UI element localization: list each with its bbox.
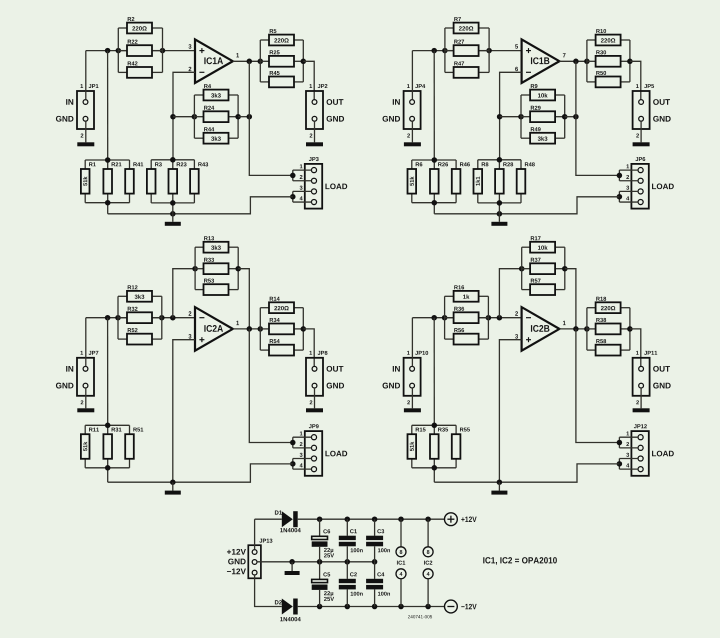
capacitor C1 100n: [339, 519, 363, 562]
junction input/divider: [105, 315, 111, 321]
resistor R42: [127, 61, 152, 77]
resistor R9 value 10k: [530, 84, 555, 100]
resistor R55: [452, 428, 470, 459]
wire JP1 pin1 to input net: [85, 51, 87, 100]
connector JP7 (IN/GND): [56, 351, 98, 404]
ground: [165, 222, 181, 226]
resistor R14 value 220Ω: [269, 297, 294, 313]
wire ground stub: [498, 214, 500, 222]
resistor R5 value 220Ω: [269, 29, 294, 45]
junction output node: [573, 326, 579, 332]
connector JP11 (OUT/GND): [633, 351, 671, 404]
junction +12V rail: [425, 516, 431, 522]
junction feedback bracket right: [562, 114, 568, 120]
wire feedback group left link: [500, 116, 521, 118]
junction input bracket: [442, 315, 448, 321]
wire JP7 pin1 to input net: [85, 318, 87, 367]
junction divider top: [432, 423, 438, 429]
junction JP6 pins 1-2: [617, 173, 623, 179]
power terminal -12V: [445, 600, 477, 613]
resistor R11 value 51k: [81, 428, 99, 459]
wire feedback to output: [238, 116, 249, 118]
wire output vertical to LOAD: [576, 329, 620, 443]
wire input to load-divider group: [433, 51, 435, 160]
connector JP13 (+12V/GND/-12V): [227, 539, 272, 579]
junction feedback bracket left: [192, 114, 198, 120]
junction ground net: [170, 479, 176, 485]
resistor R18 value 220Ω: [596, 297, 621, 313]
junction JP3 pins 1-2: [290, 173, 296, 179]
resistor R44 value 3k3: [204, 127, 229, 143]
wire input net IC1A: [86, 50, 195, 52]
wire input to load-divider group: [107, 51, 109, 160]
junction +12V rail: [317, 516, 323, 522]
wire output vertical to LOAD: [249, 61, 292, 175]
wire parallel-group bracket for R2/R22/R42: [118, 28, 162, 72]
wire JP10 pin2 to ground: [411, 388, 413, 408]
junction divider B top: [170, 157, 176, 163]
wire feedback to output vertical: [565, 269, 576, 329]
wire -12V rail: [298, 606, 445, 608]
junction -12V rail: [345, 604, 351, 610]
capacitor C5 electrolytic 22µ/25V: [312, 562, 334, 607]
wire JP4 pin2 to ground: [411, 121, 413, 142]
resistor R10 value 220Ω: [596, 29, 621, 45]
resistor R46: [452, 162, 470, 193]
wire JP10 pin1 to input net: [411, 318, 413, 367]
junction feedback tap: [170, 315, 176, 321]
capacitor C4 100n: [366, 562, 390, 607]
junction output bracket right: [301, 326, 307, 332]
wire ground stub: [172, 482, 174, 490]
op-amp IC2A: [189, 307, 240, 351]
resistor R27: [454, 40, 479, 56]
connector JP1 (IN/GND): [56, 84, 99, 137]
ground: [404, 408, 421, 412]
junction output node: [573, 59, 579, 65]
wire output vertical to LOAD: [576, 61, 620, 175]
wire output net IC1A: [233, 60, 260, 62]
IC power pins IC2 (8/4): [423, 519, 433, 606]
junction divider bottom: [105, 465, 111, 471]
connector JP2 (OUT/GND): [306, 84, 344, 137]
junction output node: [247, 59, 253, 65]
junction input/divider: [431, 48, 437, 54]
junction feedback tap: [170, 114, 176, 120]
junction ground rail / ground symbol: [289, 559, 295, 565]
wire parallel-group bracket for R12/R32/R52: [118, 296, 162, 339]
wire parallel-group bracket for R6/R26/R46: [412, 160, 456, 203]
wire input net IC2B: [412, 317, 521, 319]
resistor R53: [204, 279, 229, 295]
wire IC2B non-inverting input to ground: [499, 340, 521, 483]
power terminal +12V: [445, 513, 477, 526]
wire parallel-group bracket for R17/R37/R57: [522, 247, 565, 289]
junction +12V rail: [398, 516, 404, 522]
wire JP11 pin2 to ground: [640, 388, 642, 408]
resistor R35: [430, 428, 448, 459]
resistor R22: [127, 40, 152, 56]
wire JP1 pin2 to ground: [85, 121, 87, 142]
wire output net IC1B: [559, 60, 587, 62]
wire divider B to ground wire: [498, 203, 500, 214]
wire feedback vertical: [173, 269, 195, 318]
ground: [491, 491, 507, 495]
junction -12V rail: [398, 604, 404, 610]
capacitor C6 electrolytic 22µ/25V: [312, 519, 334, 562]
wire IC1B inverting input net: [500, 72, 522, 160]
wire divider B to ground wire: [172, 203, 174, 214]
junction feedback bracket right: [235, 114, 241, 120]
wire parallel-group bracket for R18/R38/R58: [587, 308, 630, 350]
junction JP3 pins 3-4: [290, 194, 296, 200]
ground: [633, 408, 650, 412]
ground: [306, 408, 323, 412]
resistor R49 value 3k3: [530, 127, 555, 143]
wire JP3 pin1-2 bracket: [293, 170, 312, 181]
wire parallel-group bracket for R10/R30/R50: [587, 40, 630, 82]
wire ground stub: [291, 562, 293, 571]
junction feedback bracket right: [562, 266, 568, 272]
wire JP6 pin3-4 bracket: [619, 191, 638, 202]
junction bracket right: [159, 315, 165, 321]
resistor R31: [103, 428, 121, 459]
connector JP5 (OUT/GND): [633, 84, 671, 137]
resistor R32: [127, 307, 152, 323]
wire parallel-group bracket for R15/R35/R55: [412, 425, 456, 468]
wire JP8 pin2 to ground: [314, 388, 316, 408]
connector JP8 (OUT/GND): [306, 351, 344, 404]
wire LOAD return to ground: [434, 197, 619, 214]
junction feedback/output vertical: [247, 114, 253, 120]
wire divider A to ground wire: [433, 203, 435, 214]
connector JP6 (LOAD): [626, 157, 674, 209]
junction divider A top: [432, 157, 438, 163]
wire feedback vertical: [499, 269, 521, 318]
wire parallel-group bracket for R5/R25/R45: [260, 40, 303, 82]
junction bracket right: [486, 315, 492, 321]
resistor R17 value 10k: [530, 236, 555, 252]
junction divider A bottom: [432, 200, 438, 206]
resistor R41: [125, 162, 143, 193]
junction JP12 pins 3-4: [617, 461, 623, 467]
wire JP13 pin1 to +12V rail: [254, 519, 256, 549]
resistor R52: [127, 328, 152, 344]
wire JP12 pin1-2 bracket: [619, 437, 638, 448]
resistor R50: [596, 71, 621, 87]
op-amp IC2B: [515, 307, 566, 351]
wire ground stub: [498, 482, 500, 490]
junction ground net: [170, 211, 176, 217]
junction input/divider: [105, 48, 111, 54]
junction input/divider: [431, 315, 437, 321]
wire JP4 pin1 to input net: [411, 51, 413, 100]
capacitor C2 100n: [339, 562, 363, 607]
resistor R23: [169, 162, 187, 193]
junction ground net: [497, 211, 503, 217]
wire parallel-group bracket for R14/R34/R54: [260, 308, 303, 350]
wire feedback group left link: [173, 116, 194, 118]
junction feedback bracket left: [192, 266, 198, 272]
wire input net IC1B: [412, 50, 521, 52]
junction output bracket left: [584, 326, 590, 332]
junction divider top: [105, 423, 111, 429]
op-amp IC1B: [515, 39, 565, 83]
wire JP9 pin1-2 bracket: [293, 437, 312, 448]
junction output bracket right: [627, 326, 633, 332]
junction ground rail C3/C4: [372, 559, 378, 565]
connector JP3 (LOAD): [300, 157, 348, 209]
resistor R15 value 51k: [408, 428, 426, 459]
wire parallel-group bracket for R16/R36/R56: [445, 296, 489, 339]
diode D1 1N4004: [275, 510, 301, 532]
junction input bracket: [116, 48, 122, 54]
resistor R28: [495, 162, 513, 193]
junction bracket right: [160, 48, 166, 54]
junction divider B bottom: [497, 200, 503, 206]
wire ground stub: [172, 214, 174, 222]
junction JP9 pins 3-4: [290, 461, 296, 467]
resistor R7 value 220Ω: [454, 17, 479, 33]
ground: [165, 491, 181, 495]
wire output to JP2: [303, 61, 314, 99]
wire parallel-group bracket for R7/R27/R47: [445, 28, 489, 72]
junction output node: [247, 326, 253, 332]
junction JP12 pins 1-2: [617, 440, 623, 446]
resistor R4 value 3k3: [204, 84, 229, 100]
junction JP6 pins 3-4: [617, 194, 623, 200]
wire divider to ground wire: [433, 468, 435, 482]
wire input to load-divider group: [433, 318, 435, 426]
resistor R38: [596, 318, 621, 334]
resistor R33: [204, 258, 229, 274]
wire JP13 pin3 to -12V rail: [255, 575, 282, 607]
resistor R3: [147, 162, 162, 193]
wire JP12 pin3-4 bracket: [619, 459, 638, 470]
junction +12V rail: [345, 516, 351, 522]
wire LOAD return to ground: [108, 464, 293, 482]
ground: [77, 142, 94, 146]
junction feedback tap: [497, 315, 503, 321]
resistor R54: [269, 339, 294, 355]
resistor R36: [454, 307, 479, 323]
wire JP13 pin2 to ground rail: [257, 561, 375, 563]
junction ground net: [497, 479, 503, 485]
note IC types: [483, 557, 557, 565]
junction bracket right: [486, 48, 492, 54]
resistor R1 value 51k: [81, 162, 96, 193]
junction output bracket right: [301, 59, 307, 65]
wire +12V rail: [298, 518, 445, 520]
junction input bracket: [442, 48, 448, 54]
resistor R26: [430, 162, 448, 193]
wire divider A to ground wire: [107, 203, 109, 214]
wire parallel-group bracket for R3/R23/R43: [151, 160, 194, 203]
resistor R8 value 1k1: [474, 162, 489, 193]
junction divider bottom: [432, 465, 438, 471]
wire parallel-group bracket for R1/R21/R41: [85, 160, 129, 203]
wire output to JP5: [630, 61, 641, 99]
ground: [77, 408, 94, 412]
connector JP4 (IN/GND): [383, 84, 426, 137]
resistor R45: [269, 71, 294, 87]
junction -12V rail: [425, 604, 431, 610]
resistor R57: [530, 279, 555, 295]
junction feedback/output vertical: [573, 114, 579, 120]
resistor R2 value 220Ω: [127, 17, 152, 33]
wire JP5 pin2 to ground: [640, 121, 642, 142]
resistor R43: [190, 162, 208, 193]
resistor R29: [530, 106, 555, 122]
wire JP9 pin3-4 bracket: [293, 459, 312, 470]
wire input net IC2A: [86, 317, 195, 319]
diode D2 1N4004: [275, 599, 301, 622]
wire output net IC2A: [233, 328, 260, 330]
junction divider A bottom: [105, 200, 111, 206]
junction -12V rail: [317, 604, 323, 610]
wire parallel-group bracket for R4/R24/R44: [194, 95, 238, 138]
wire parallel-group bracket for R8/R28/R48: [478, 160, 521, 203]
wire IC1A inverting input net: [173, 72, 195, 160]
wire output net IC2B: [559, 328, 587, 330]
ground: [306, 142, 323, 146]
ground: [285, 571, 300, 575]
junction divider B top: [497, 157, 503, 163]
wire parallel-group bracket for R13/R33/R53: [195, 247, 238, 289]
wire LOAD return to ground: [434, 464, 619, 482]
wire JP7 pin2 to ground: [85, 388, 87, 408]
junction output bracket left: [258, 59, 264, 65]
resistor R16 value 1k: [454, 285, 479, 301]
junction output bracket right: [627, 59, 633, 65]
IC power pins IC1 (8/4): [396, 519, 406, 606]
junction +12V rail: [372, 516, 378, 522]
wire JP3 pin3-4 bracket: [293, 191, 312, 202]
wire feedback to output: [565, 116, 576, 118]
wire JP6 pin1-2 bracket: [619, 170, 638, 181]
junction ground rail C6/C5: [317, 559, 323, 565]
resistor R24: [204, 106, 229, 122]
wire output vertical to LOAD: [249, 329, 292, 443]
capacitor C3 100n: [366, 519, 390, 562]
resistor R12 value 3k3: [127, 285, 152, 301]
junction ground rail C1/C2: [345, 559, 351, 565]
resistor R37: [530, 258, 555, 274]
wire output to JP8: [303, 329, 314, 367]
resistor R13 value 3k3: [204, 236, 229, 252]
junction feedback bracket left: [519, 266, 525, 272]
ground: [633, 142, 650, 146]
op-amp IC1A: [189, 39, 240, 83]
wire input to load-divider group: [107, 318, 109, 426]
drawing number: [408, 615, 432, 618]
wire divider to ground wire: [107, 468, 109, 482]
resistor R25: [269, 50, 294, 66]
ground: [491, 222, 507, 226]
wire parallel-group bracket for R9/R29/R49: [521, 95, 565, 138]
junction divider A top: [105, 157, 111, 163]
connector JP12 (LOAD): [626, 424, 674, 476]
wire LOAD return to ground: [108, 197, 293, 214]
resistor R34: [269, 318, 294, 334]
junction feedback bracket right: [235, 266, 241, 272]
resistor R6 value 51k: [408, 162, 423, 193]
wire feedback to output vertical: [238, 269, 249, 329]
resistor R51: [125, 428, 143, 459]
wire JP2 pin2 to ground: [314, 121, 316, 142]
wire output to JP11: [630, 329, 641, 367]
resistor R56: [454, 328, 479, 344]
junction output bracket left: [258, 326, 264, 332]
resistor R47: [454, 61, 479, 77]
resistor R58: [596, 339, 621, 355]
resistor R30: [596, 50, 621, 66]
wire +12V rail to D1: [255, 518, 282, 520]
wire parallel-group bracket for R11/R31/R51: [85, 425, 129, 468]
wire IC2A non-inverting input to ground: [173, 340, 195, 483]
junction -12V rail: [372, 604, 378, 610]
junction divider B bottom: [170, 200, 176, 206]
junction input bracket: [115, 315, 121, 321]
ground: [404, 142, 421, 146]
junction JP9 pins 1-2: [290, 440, 296, 446]
connector JP10 (IN/GND): [383, 351, 429, 404]
junction feedback bracket left: [518, 114, 524, 120]
junction output bracket left: [584, 59, 590, 65]
junction feedback tap: [497, 114, 503, 120]
connector JP9 (LOAD): [300, 424, 348, 476]
resistor R21: [103, 162, 121, 193]
resistor R48: [517, 162, 535, 193]
